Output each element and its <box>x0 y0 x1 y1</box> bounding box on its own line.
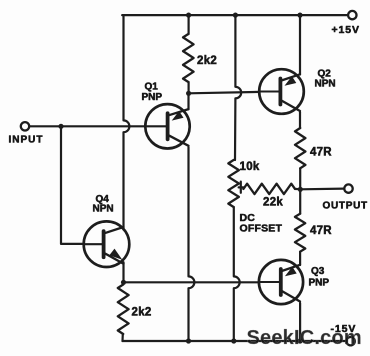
transistor Q2 (NPN) <box>259 69 304 114</box>
terminal OUTPUT <box>344 184 352 192</box>
node Q1 collector / -15V rail <box>186 338 191 343</box>
svg-text:2k2: 2k2 <box>132 306 152 318</box>
wire left vertical from +15V rail to Q4 collector (hop over input wire) <box>124 15 130 229</box>
wire 2k2 top resistor leads <box>188 15 190 93</box>
resistor R1 2k2 (top) <box>183 34 194 82</box>
wire 10k pot bottom down to -15V rail (hop over DC-offset line) <box>234 207 240 341</box>
transistor Q3 (PNP) <box>259 260 303 304</box>
wire node line from 2k2 bottom to Q2 base <box>189 92 260 93</box>
wire DC-offset node line from 2k2 node to Q3 base <box>124 281 260 283</box>
wire 47R bottom to Q3 emitter <box>299 252 301 265</box>
svg-text:Q3: Q3 <box>311 266 325 277</box>
wire 22k to output node <box>295 188 300 191</box>
svg-text:SeekIC.com: SeekIC.com <box>247 327 362 349</box>
svg-text:PNP: PNP <box>142 92 163 103</box>
node output junction <box>298 187 303 192</box>
wire input line from INPUT terminal to Q1 base <box>29 125 145 127</box>
wire output node to OUTPUT terminal <box>300 188 344 191</box>
wire 47R top bottom to output node <box>299 168 301 189</box>
node Q2 collector / rail <box>297 13 302 18</box>
resistor R5 47R (bottom) <box>295 214 305 252</box>
svg-text:INPUT: INPUT <box>9 135 44 146</box>
wire output node down to 47R bottom <box>299 189 301 213</box>
wire Q1 emitter up to 2k2/Q2-base node <box>187 93 189 109</box>
wire top +15V rail <box>122 14 348 16</box>
wire Q2 emitter down to 47R top <box>299 112 301 128</box>
transistor Q1 (PNP) <box>145 104 189 148</box>
svg-text:2k2: 2k2 <box>197 55 217 67</box>
node Q1 emitter / 2k2 / Q2 base <box>186 91 191 96</box>
node input junction <box>58 124 63 129</box>
wire bottom -15V rail <box>123 340 347 342</box>
node pot bottom / -15V rail <box>231 338 236 343</box>
wire 2k2 bottom lead to rail corner <box>121 334 124 341</box>
svg-text:+15V: +15V <box>332 24 360 36</box>
svg-text:22k: 22k <box>263 197 283 209</box>
svg-text:OUTPUT: OUTPUT <box>323 201 368 212</box>
wire Q2 collector up to +15V rail <box>299 15 301 74</box>
terminal INPUT <box>21 122 29 130</box>
resistor R3 22k <box>243 184 295 194</box>
wire +15V rail down to 10k pot top (hop over node line) <box>235 15 241 160</box>
svg-text:NPN: NPN <box>315 79 336 90</box>
transistor Q4 (NPN) <box>84 221 130 267</box>
svg-text:10k: 10k <box>240 161 260 173</box>
svg-text:Q1: Q1 <box>145 82 159 93</box>
resistor R4 47R (top) <box>295 128 305 168</box>
svg-text:47R: 47R <box>310 225 332 237</box>
wire Q4 emitter down to 2k2 node <box>122 262 124 282</box>
svg-text:OFFSET: OFFSET <box>240 223 283 235</box>
node Q3 collector / -15V rail <box>298 338 303 343</box>
resistor R2 2k2 (bottom) <box>118 285 129 335</box>
wire Q1 collector down to -15V rail (hop over DC-offset line) <box>189 147 195 341</box>
terminal -15V <box>346 337 354 345</box>
svg-text:PNP: PNP <box>309 278 330 289</box>
potentiometer 10k element <box>228 160 239 207</box>
terminal +15V <box>348 11 356 19</box>
wire Q3 collector down to -15V rail <box>299 303 301 341</box>
svg-text:47R: 47R <box>310 147 332 159</box>
potentiometer wiper arm <box>239 182 244 193</box>
wire input node down and right to Q4 base <box>61 126 84 244</box>
node pot top / rail <box>233 13 238 18</box>
svg-text:NPN: NPN <box>93 204 114 215</box>
node Q4 emitter / 2k2 / Q3 base <box>121 280 126 285</box>
node 2k2 top / rail <box>186 13 191 18</box>
